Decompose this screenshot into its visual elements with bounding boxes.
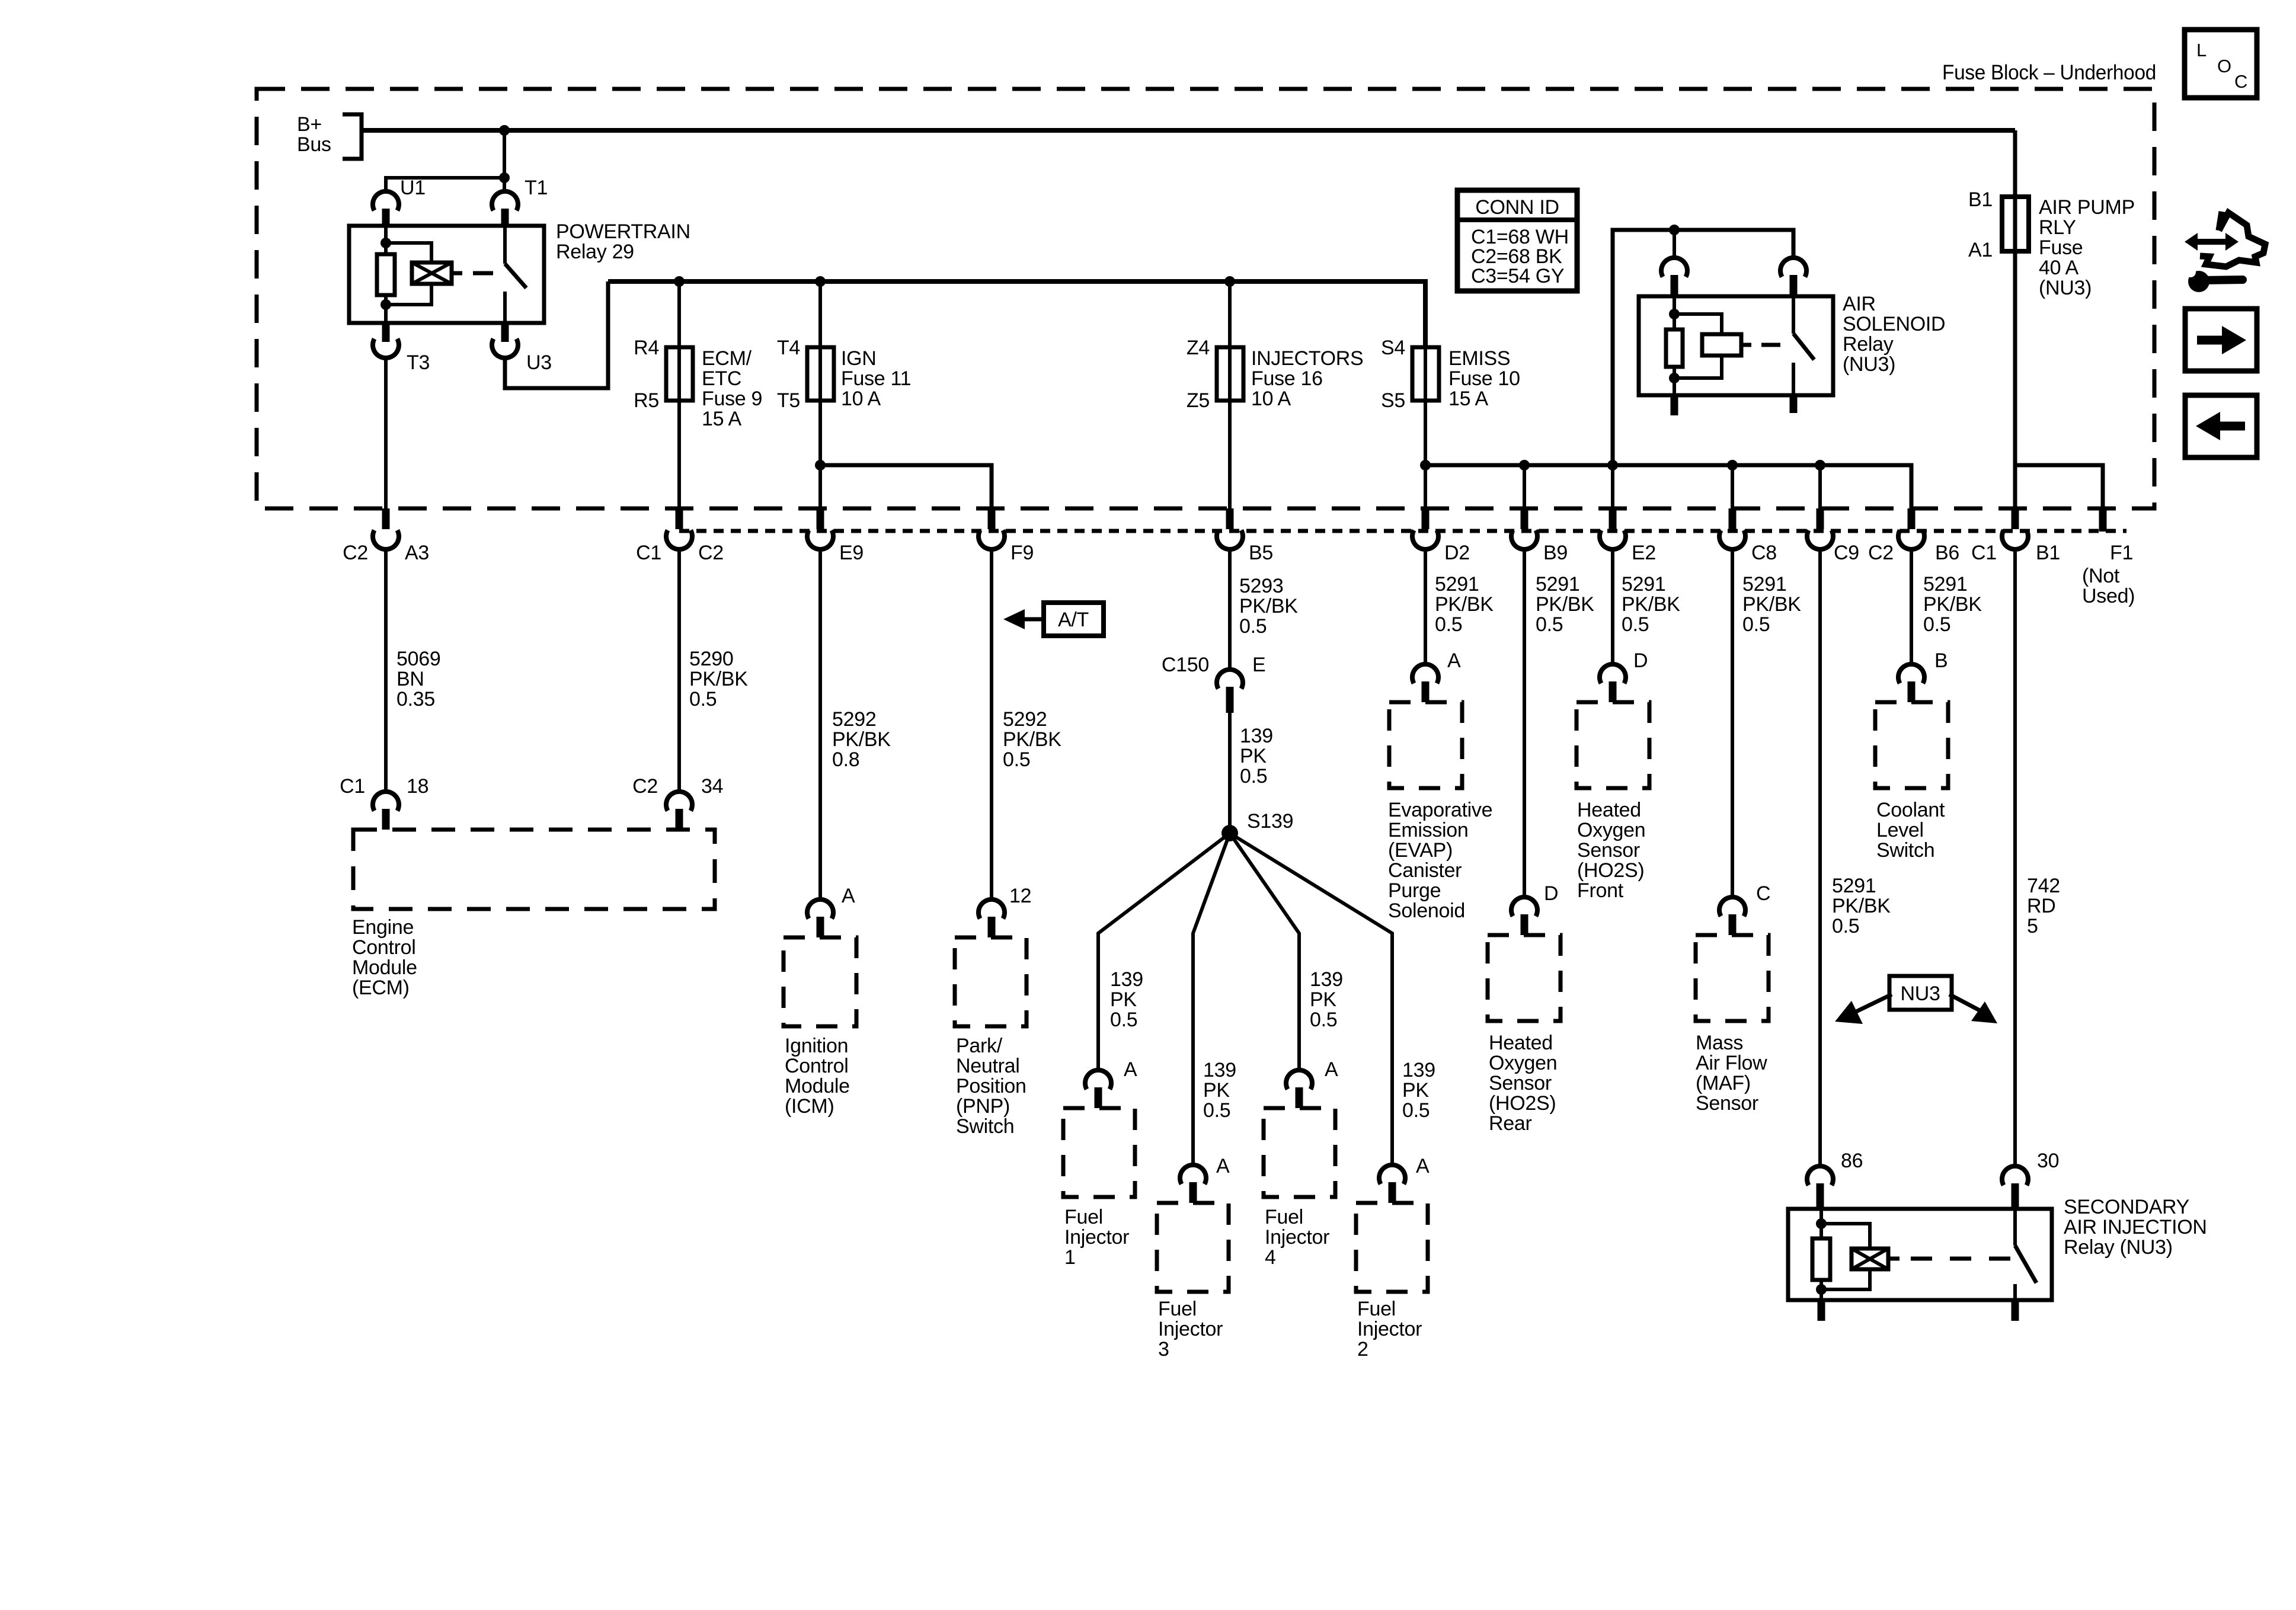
svg-text:Module: Module <box>785 1075 850 1097</box>
Fuel Injector 1 box <box>1063 1108 1135 1197</box>
svg-text:Relay: Relay <box>1843 333 1894 356</box>
svg-text:T5: T5 <box>777 389 800 412</box>
switch secondary air relay <box>2013 1209 2017 1246</box>
pin D HO2S front connector <box>1600 664 1626 683</box>
svg-text:0.5: 0.5 <box>1239 615 1267 638</box>
svg-text:AIR PUMP: AIR PUMP <box>2039 196 2135 219</box>
svg-text:RLY: RLY <box>2039 216 2076 239</box>
svg-text:BN: BN <box>396 668 424 690</box>
svg-text:139: 139 <box>1402 1059 1435 1081</box>
svg-text:T4: T4 <box>777 337 800 359</box>
wire S139 to fuel injector 1 <box>1098 833 1230 1069</box>
svg-text:C2: C2 <box>632 775 658 798</box>
wire R5 to C1/C2 <box>677 401 681 508</box>
svg-text:0.5: 0.5 <box>1622 613 1649 636</box>
fuse IGN Fuse 11 10A (T4/T5) <box>818 281 822 403</box>
svg-text:C8: C8 <box>1751 542 1777 564</box>
svg-text:0.5: 0.5 <box>1923 613 1950 636</box>
svg-text:PK/BK: PK/BK <box>1239 595 1298 617</box>
junction on B+ bus <box>499 125 510 136</box>
svg-text:NU3: NU3 <box>1900 982 1940 1005</box>
svg-text:(ECM): (ECM) <box>352 977 410 999</box>
junction T5 branch F9 <box>815 460 826 470</box>
pin U1 connector <box>373 191 399 210</box>
svg-text:B1: B1 <box>1968 188 1993 211</box>
svg-text:Heated: Heated <box>1577 799 1641 821</box>
svg-text:Switch: Switch <box>1876 839 1934 862</box>
svg-text:(Not: (Not <box>2082 565 2120 587</box>
svg-text:10 A: 10 A <box>841 388 881 410</box>
svg-text:Injector: Injector <box>1265 1226 1329 1249</box>
svg-text:0.8: 0.8 <box>832 748 859 771</box>
svg-text:IGN: IGN <box>841 347 877 370</box>
mechanical link relay 29 <box>473 271 493 276</box>
svg-text:U1: U1 <box>400 177 426 199</box>
junction S5 branch <box>1420 460 1431 470</box>
pin 12 PNP connector <box>978 900 1005 918</box>
svg-text:Purge: Purge <box>1388 879 1441 902</box>
pin T3 connector <box>382 323 390 342</box>
node B+ Bus bracket <box>343 114 362 159</box>
wire drop B9 <box>1523 465 1526 508</box>
connector E2 <box>1609 508 1617 529</box>
svg-text:Oxygen: Oxygen <box>1577 819 1645 841</box>
svg-text:A: A <box>1216 1155 1230 1177</box>
NU3 tag with arrows <box>1889 976 1952 1010</box>
svg-text:B5: B5 <box>1249 542 1273 564</box>
splice S139 <box>1221 825 1238 841</box>
svg-text:15 A: 15 A <box>702 408 741 430</box>
svg-text:B9: B9 <box>1543 542 1568 564</box>
svg-text:Injector: Injector <box>1064 1226 1129 1249</box>
coil solenoid symbol air solenoid relay <box>1702 334 1741 356</box>
svg-text:5291: 5291 <box>1622 573 1665 596</box>
svg-text:0.5: 0.5 <box>1240 765 1267 788</box>
wire Z5 to B5 <box>1228 401 1232 508</box>
svg-text:139: 139 <box>1110 968 1143 991</box>
svg-text:1: 1 <box>1064 1246 1076 1269</box>
Fuel Injector 3 box <box>1157 1203 1229 1292</box>
junction branch E2 <box>1607 460 1618 470</box>
svg-text:INJECTORS: INJECTORS <box>1251 347 1363 370</box>
wire U3 to fuse feed <box>505 281 608 388</box>
connector B5 <box>1226 508 1234 529</box>
svg-text:Fuse Block – Underhood: Fuse Block – Underhood <box>1942 61 2156 84</box>
wire S139 to fuel injector 4 <box>1230 833 1299 1069</box>
pin 86 connector <box>1807 1166 1833 1185</box>
svg-text:(NU3): (NU3) <box>2039 277 2092 299</box>
svg-text:2: 2 <box>1357 1338 1368 1361</box>
svg-text:Engine: Engine <box>352 916 414 939</box>
svg-text:A/T: A/T <box>1058 609 1089 631</box>
pin T1 connector <box>492 191 518 210</box>
svg-text:5291: 5291 <box>1536 573 1579 596</box>
svg-text:40 A: 40 A <box>2039 257 2078 279</box>
svg-text:B1: B1 <box>2036 542 2060 564</box>
svg-text:Relay (NU3): Relay (NU3) <box>2064 1236 2173 1259</box>
svg-text:0.5: 0.5 <box>1435 613 1462 636</box>
svg-text:PK/BK: PK/BK <box>1742 593 1801 616</box>
wire branch to F1 <box>2015 465 2103 508</box>
svg-text:Fuse: Fuse <box>2039 236 2083 259</box>
svg-text:0.5: 0.5 <box>1310 1009 1337 1031</box>
svg-text:Rear: Rear <box>1489 1112 1532 1135</box>
wire fuse feed line <box>608 281 1425 347</box>
svg-text:Level: Level <box>1876 819 1924 841</box>
Heated Oxygen Sensor (HO2S) Rear box <box>1488 935 1560 1021</box>
svg-text:O: O <box>2217 56 2231 76</box>
pin C2/34 ECM connector <box>666 792 692 811</box>
svg-text:A: A <box>1416 1155 1430 1177</box>
svg-text:PK/BK: PK/BK <box>1536 593 1594 616</box>
wire S5 to D2 <box>1424 401 1427 508</box>
svg-text:(EVAP): (EVAP) <box>1388 839 1453 862</box>
connector C150 pin E <box>1217 670 1243 689</box>
wire B+ bus <box>362 128 2015 133</box>
svg-text:12: 12 <box>1009 885 1031 907</box>
wire C8 to MAF sensor <box>1731 548 1734 896</box>
wire A3 to ECM C1 <box>384 548 388 790</box>
next page arrow icon <box>2185 309 2257 371</box>
harness routing icon double arrow <box>2195 239 2228 245</box>
wire to air solenoid coil pin <box>1673 230 1676 258</box>
svg-text:E9: E9 <box>839 542 864 564</box>
junction T1/U1 branch <box>499 172 510 183</box>
svg-text:Park/: Park/ <box>956 1035 1003 1057</box>
connector C8 <box>1729 508 1737 529</box>
wire bus through air pump fuse to B1 <box>2013 130 2017 508</box>
Coolant Level Switch box <box>1875 702 1948 788</box>
svg-text:Sensor: Sensor <box>1577 839 1640 862</box>
svg-text:Switch: Switch <box>956 1115 1014 1138</box>
svg-text:Ignition: Ignition <box>785 1035 848 1057</box>
svg-text:D2: D2 <box>1444 542 1470 564</box>
relay 29 coil branch wires <box>384 226 388 254</box>
svg-text:0.5: 0.5 <box>1536 613 1563 636</box>
svg-text:5291: 5291 <box>1742 573 1786 596</box>
switch air solenoid relay <box>1792 296 1795 334</box>
switch relay 29 <box>503 226 507 264</box>
harness connector dotted line <box>679 529 2126 533</box>
wire drop C9 <box>1818 465 1822 508</box>
svg-text:Coolant: Coolant <box>1876 799 1945 821</box>
previous page arrow icon <box>2185 395 2257 457</box>
svg-text:C2: C2 <box>1868 542 1894 564</box>
svg-text:S4: S4 <box>1381 337 1405 359</box>
svg-text:5291: 5291 <box>1923 573 1967 596</box>
wire F9 to PNP switch <box>990 548 993 898</box>
svg-text:A: A <box>842 885 855 907</box>
Park/Neutral Position (PNP) Switch box <box>955 937 1027 1026</box>
svg-text:C9: C9 <box>1834 542 1859 564</box>
svg-text:Sensor: Sensor <box>1489 1072 1552 1094</box>
wire drop C8 <box>1731 465 1734 508</box>
svg-text:C: C <box>1756 882 1770 905</box>
svg-text:4: 4 <box>1265 1246 1276 1269</box>
junction feed Z4 <box>1224 276 1235 287</box>
svg-text:C: C <box>2234 71 2247 92</box>
svg-text:L: L <box>2196 40 2207 60</box>
svg-text:86: 86 <box>1841 1150 1863 1172</box>
wire EMISS branch line <box>1425 465 1911 508</box>
svg-text:5291: 5291 <box>1435 573 1479 596</box>
svg-text:A: A <box>1124 1058 1137 1081</box>
pin C MAF connector <box>1719 897 1745 916</box>
Evaporative Emission (EVAP) Canister Purge Solenoid box <box>1389 702 1462 788</box>
svg-text:0.5: 0.5 <box>1003 748 1030 771</box>
svg-text:Injector: Injector <box>1158 1318 1223 1340</box>
air solenoid relay coil wires <box>1673 296 1676 329</box>
air solenoid relay coil pin connector <box>1661 258 1687 277</box>
wire branch to F9 <box>820 465 992 508</box>
svg-text:T3: T3 <box>407 351 430 374</box>
wire T5 to E9 <box>818 401 822 508</box>
svg-text:(MAF): (MAF) <box>1696 1072 1751 1094</box>
svg-text:AIR INJECTION: AIR INJECTION <box>2064 1216 2207 1238</box>
svg-text:A3: A3 <box>405 542 429 564</box>
svg-text:Neutral: Neutral <box>956 1055 1020 1077</box>
connector C2/A3 (fuse block to ECM pigtail) <box>382 508 390 529</box>
svg-text:SOLENOID: SOLENOID <box>1843 313 1945 335</box>
svg-text:0.5: 0.5 <box>1203 1099 1230 1122</box>
Heated Oxygen Sensor (HO2S) Front box <box>1576 702 1649 788</box>
svg-text:D: D <box>1633 649 1648 672</box>
svg-text:ECM/: ECM/ <box>702 347 752 370</box>
wire E9 to ICM <box>818 548 822 898</box>
svg-text:Evaporative: Evaporative <box>1388 799 1492 821</box>
svg-text:Air Flow: Air Flow <box>1696 1052 1767 1074</box>
svg-text:S5: S5 <box>1381 389 1405 412</box>
svg-text:PK/BK: PK/BK <box>1832 895 1891 917</box>
connector C9 C2 <box>1817 508 1824 529</box>
svg-text:EMISS: EMISS <box>1448 347 1510 370</box>
pin U3 connector <box>501 323 509 342</box>
fuse ECM/ETC Fuse 9 15A (R4/R5) <box>677 281 681 403</box>
svg-text:(PNP): (PNP) <box>956 1095 1010 1118</box>
svg-text:139: 139 <box>1240 725 1273 747</box>
wire air solenoid relay feed <box>1613 230 1793 465</box>
svg-text:Fuel: Fuel <box>1064 1206 1103 1228</box>
wire E2 to HO2S front <box>1611 548 1614 663</box>
wire B1 to relay 30 <box>2013 548 2017 1165</box>
wire branch to U1 <box>386 178 504 191</box>
svg-text:Z4: Z4 <box>1187 337 1210 359</box>
secondary air relay coil wires <box>1819 1209 1823 1238</box>
svg-text:R5: R5 <box>634 389 659 412</box>
svg-text:Canister: Canister <box>1388 859 1462 882</box>
svg-text:Bus: Bus <box>297 133 331 156</box>
svg-text:5: 5 <box>2027 915 2038 937</box>
resistor in air solenoid relay <box>1666 329 1683 367</box>
svg-text:10 A: 10 A <box>1251 388 1291 410</box>
wire C150 to S139 <box>1228 713 1232 833</box>
svg-text:Fuel: Fuel <box>1158 1298 1197 1320</box>
air solenoid relay lower pin stubs <box>1671 395 1678 415</box>
svg-text:D: D <box>1544 882 1558 905</box>
resistor in secondary air relay <box>1812 1238 1830 1280</box>
fuse INJECTORS Fuse 16 10A (Z4/Z5) <box>1228 281 1232 403</box>
coil solenoid symbol secondary air relay <box>1851 1249 1888 1269</box>
svg-text:Solenoid: Solenoid <box>1388 900 1465 922</box>
svg-text:(HO2S): (HO2S) <box>1489 1092 1556 1115</box>
wire D2 to EVAP solenoid <box>1424 548 1427 663</box>
resistor in relay 29 <box>377 254 395 295</box>
svg-text:PK/BK: PK/BK <box>689 668 748 690</box>
svg-text:3: 3 <box>1158 1338 1169 1361</box>
coil solenoid symbol relay 29 <box>412 263 452 284</box>
junction branch C8 <box>1727 460 1738 470</box>
svg-text:C1: C1 <box>340 775 365 798</box>
mechanical link secondary air relay <box>1911 1257 2010 1261</box>
svg-text:Used): Used) <box>2082 585 2135 607</box>
wire C1/C2 to ECM C2 <box>677 548 681 790</box>
svg-text:C3=54 GY: C3=54 GY <box>1471 265 1564 287</box>
svg-text:Emission: Emission <box>1388 819 1469 841</box>
fuse AIR PUMP RLY Fuse 40A (B1/A1) <box>2002 197 2029 251</box>
svg-text:5293: 5293 <box>1239 575 1283 597</box>
svg-text:0.5: 0.5 <box>1402 1099 1430 1122</box>
svg-text:CONN ID: CONN ID <box>1475 196 1559 219</box>
junction feed T4 <box>815 276 826 287</box>
pin B coolant level switch connector <box>1898 664 1924 683</box>
svg-text:5292: 5292 <box>832 708 876 731</box>
connector B6 C1 <box>1908 508 1916 529</box>
connector C1/C2 <box>676 508 683 529</box>
Engine Control Module (ECM) box <box>353 830 715 909</box>
svg-text:15 A: 15 A <box>1448 388 1488 410</box>
wire B9 to HO2S rear <box>1523 548 1526 896</box>
fuse block underhood dashed border <box>257 89 2154 508</box>
svg-text:30: 30 <box>2037 1150 2059 1172</box>
svg-text:SECONDARY: SECONDARY <box>2064 1196 2189 1218</box>
svg-text:0.5: 0.5 <box>1742 613 1770 636</box>
fuse EMISS Fuse 10 15A (S4/S5) <box>1424 281 1427 403</box>
relay AIR SOLENOID Relay (NU3) box <box>1639 296 1833 395</box>
svg-text:742: 742 <box>2027 875 2060 897</box>
Ignition Control Module (ICM) box <box>784 937 856 1026</box>
svg-text:E2: E2 <box>1632 542 1656 564</box>
svg-text:139: 139 <box>1203 1059 1236 1081</box>
svg-text:AIR: AIR <box>1843 293 1876 315</box>
svg-text:Control: Control <box>352 936 416 959</box>
junction branch C9 <box>1815 460 1825 470</box>
secondary air relay lower pin stubs <box>1818 1300 1825 1321</box>
A/T tag with arrow <box>1044 603 1104 636</box>
pin A fuel injector 2 <box>1379 1165 1405 1184</box>
harness routing icon wrench <box>2188 271 2209 292</box>
svg-text:Module: Module <box>352 956 417 979</box>
LOC reference box <box>2185 30 2257 98</box>
svg-text:Fuel: Fuel <box>1265 1206 1303 1228</box>
svg-text:Fuse 11: Fuse 11 <box>841 367 911 390</box>
svg-text:A: A <box>1325 1058 1338 1081</box>
svg-text:Sensor: Sensor <box>1696 1092 1758 1115</box>
svg-text:C150: C150 <box>1162 654 1209 676</box>
svg-text:E: E <box>1252 654 1265 676</box>
svg-text:(NU3): (NU3) <box>1843 353 1895 376</box>
svg-text:RD: RD <box>2027 895 2056 917</box>
pin A EVAP connector <box>1412 664 1438 683</box>
Fuel Injector 2 box <box>1356 1203 1428 1292</box>
connector F9 <box>988 508 996 529</box>
connector E9 <box>817 508 824 529</box>
svg-text:Fuse 9: Fuse 9 <box>702 388 762 410</box>
mechanical link air solenoid relay <box>1761 343 1780 347</box>
svg-text:5069: 5069 <box>396 648 440 670</box>
svg-text:(HO2S): (HO2S) <box>1577 859 1644 882</box>
svg-text:PK/BK: PK/BK <box>1622 593 1680 616</box>
svg-text:Control: Control <box>785 1055 849 1077</box>
svg-text:A1: A1 <box>1968 239 1993 261</box>
svg-text:B+: B+ <box>297 113 322 136</box>
svg-text:(ICM): (ICM) <box>785 1095 834 1118</box>
junction air solenoid coil feed <box>1669 225 1680 235</box>
Fuel Injector 4 box <box>1264 1108 1335 1197</box>
svg-text:Fuse 10: Fuse 10 <box>1448 367 1520 390</box>
svg-text:Heated: Heated <box>1489 1032 1553 1054</box>
junction feed R4 <box>674 276 685 287</box>
svg-text:Fuse 16: Fuse 16 <box>1251 367 1323 390</box>
svg-text:A: A <box>1447 649 1461 672</box>
svg-text:34: 34 <box>701 775 723 798</box>
svg-text:Relay 29: Relay 29 <box>556 241 634 263</box>
pin A fuel injector 1 <box>1085 1070 1111 1089</box>
relay SECONDARY AIR INJECTION Relay (NU3) box <box>1788 1209 2052 1300</box>
air solenoid relay switch pin connector <box>1780 258 1806 277</box>
svg-text:PK/BK: PK/BK <box>1435 593 1494 616</box>
pin C1/18 ECM connector <box>373 792 399 811</box>
wire B6/C1 to coolant level switch <box>1910 548 1913 663</box>
pin A fuel injector 4 <box>1286 1070 1312 1089</box>
pin 30 connector <box>2002 1166 2028 1185</box>
svg-text:F1: F1 <box>2110 542 2133 564</box>
connector F1 (not used) <box>2099 508 2107 532</box>
wire B5 to C150 <box>1228 548 1232 670</box>
connector D2 <box>1422 508 1430 529</box>
CONN ID table <box>1457 190 1577 291</box>
svg-text:PK/BK: PK/BK <box>1003 728 1061 751</box>
svg-text:PK: PK <box>1110 988 1137 1011</box>
svg-text:Position: Position <box>956 1075 1027 1097</box>
svg-text:Z5: Z5 <box>1187 389 1210 412</box>
svg-text:C1: C1 <box>1971 542 1997 564</box>
svg-text:139: 139 <box>1310 968 1343 991</box>
connector B9 <box>1521 508 1528 529</box>
svg-text:Mass: Mass <box>1696 1032 1743 1054</box>
wire S139 to fuel injector 2 <box>1230 833 1392 1164</box>
wire S139 to fuel injector 3 <box>1193 833 1230 1164</box>
svg-text:C2: C2 <box>698 542 724 564</box>
svg-text:F9: F9 <box>1011 542 1034 564</box>
svg-text:5291: 5291 <box>1832 875 1876 897</box>
junction branch B9 <box>1519 460 1530 470</box>
svg-text:C2: C2 <box>343 542 368 564</box>
svg-text:PK: PK <box>1402 1079 1429 1102</box>
svg-text:PK/BK: PK/BK <box>832 728 891 751</box>
svg-text:0.5: 0.5 <box>689 688 717 710</box>
svg-text:PK/BK: PK/BK <box>1923 593 1982 616</box>
svg-text:0.5: 0.5 <box>1832 915 1859 937</box>
wire bus to T1 <box>503 130 506 191</box>
svg-text:ETC: ETC <box>702 367 741 390</box>
svg-text:U3: U3 <box>526 351 552 374</box>
svg-text:5290: 5290 <box>689 648 733 670</box>
svg-text:0.35: 0.35 <box>396 688 435 710</box>
svg-text:18: 18 <box>407 775 428 798</box>
pin D HO2S rear connector <box>1511 897 1537 916</box>
wire C9 to relay 86 <box>1818 548 1822 1165</box>
svg-text:B6: B6 <box>1935 542 1959 564</box>
